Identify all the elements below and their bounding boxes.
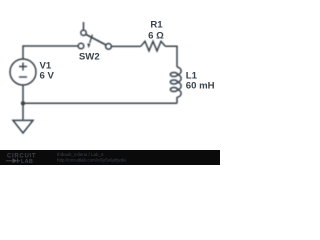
wire (111, 45, 140, 47)
svg-text:6 V: 6 V (40, 71, 55, 82)
svg-text:R1: R1 (150, 20, 163, 31)
switch SW2 (83, 22, 85, 30)
svg-text:60 mH: 60 mH (186, 81, 215, 92)
svg-text:6 Ω: 6 Ω (148, 31, 164, 42)
voltage source V1 (10, 59, 36, 85)
svg-text:http://circuitlab.com/c/6y5v6p: http://circuitlab.com/c/6y5v6pbjvda (57, 158, 126, 163)
wire (23, 102, 177, 104)
wire (176, 97, 178, 103)
watermark bar (0, 150, 220, 165)
inductor L1 (177, 67, 181, 75)
node A (21, 101, 25, 105)
svg-text:LAB: LAB (21, 159, 33, 165)
svg-text:SW2: SW2 (79, 52, 100, 63)
ground (13, 120, 33, 133)
svg-text:thibault_milena / Lab_6: thibault_milena / Lab_6 (57, 152, 104, 157)
wire (165, 46, 177, 67)
wire (23, 46, 78, 59)
resistor R1 (141, 41, 166, 51)
wire (22, 85, 24, 120)
